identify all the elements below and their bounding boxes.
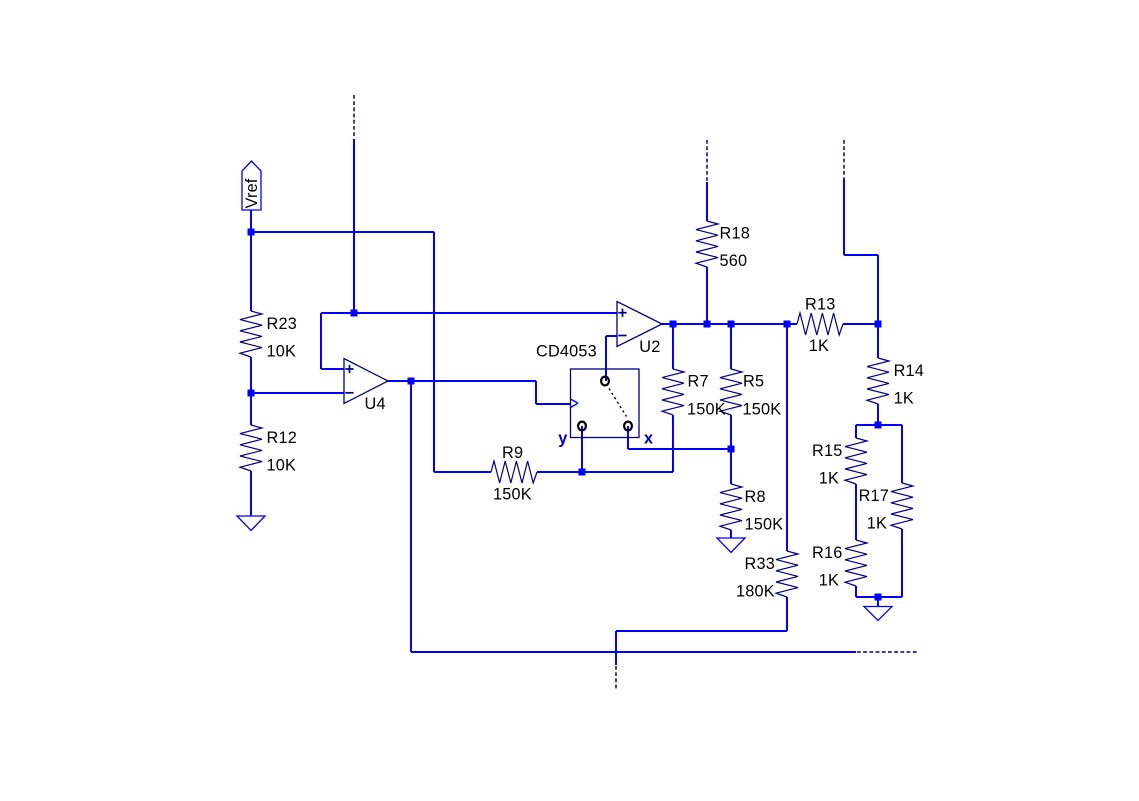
svg-text:1K: 1K <box>819 470 839 488</box>
svg-text:R12: R12 <box>267 429 297 447</box>
svg-text:1K: 1K <box>819 572 839 590</box>
svg-text:R16: R16 <box>812 544 842 562</box>
svg-text:R17: R17 <box>859 487 889 505</box>
svg-text:U4: U4 <box>365 395 386 413</box>
svg-text:R15: R15 <box>812 442 842 460</box>
svg-text:R33: R33 <box>745 555 775 573</box>
svg-text:180K: 180K <box>736 583 775 601</box>
svg-text:y: y <box>558 430 567 448</box>
svg-text:150K: 150K <box>743 401 782 419</box>
svg-text:R13: R13 <box>805 296 835 314</box>
svg-text:R8: R8 <box>745 488 766 506</box>
svg-text:1K: 1K <box>894 390 914 408</box>
svg-text:R23: R23 <box>267 315 297 333</box>
svg-text:Vref: Vref <box>243 178 261 208</box>
svg-text:R7: R7 <box>688 373 709 391</box>
svg-text:R18: R18 <box>720 225 750 243</box>
svg-text:R9: R9 <box>502 444 523 462</box>
svg-text:10K: 10K <box>267 343 297 361</box>
svg-text:1K: 1K <box>809 337 829 355</box>
svg-text:150K: 150K <box>493 485 532 503</box>
svg-text:150K: 150K <box>687 401 726 419</box>
svg-text:R14: R14 <box>894 362 924 380</box>
svg-text:560: 560 <box>720 252 748 270</box>
svg-text:150K: 150K <box>745 516 784 534</box>
svg-text:1K: 1K <box>867 515 887 533</box>
svg-text:U2: U2 <box>639 338 660 356</box>
svg-text:R5: R5 <box>743 373 764 391</box>
svg-text:CD4053: CD4053 <box>536 343 597 361</box>
svg-text:10K: 10K <box>267 457 297 475</box>
svg-text:x: x <box>644 430 653 448</box>
